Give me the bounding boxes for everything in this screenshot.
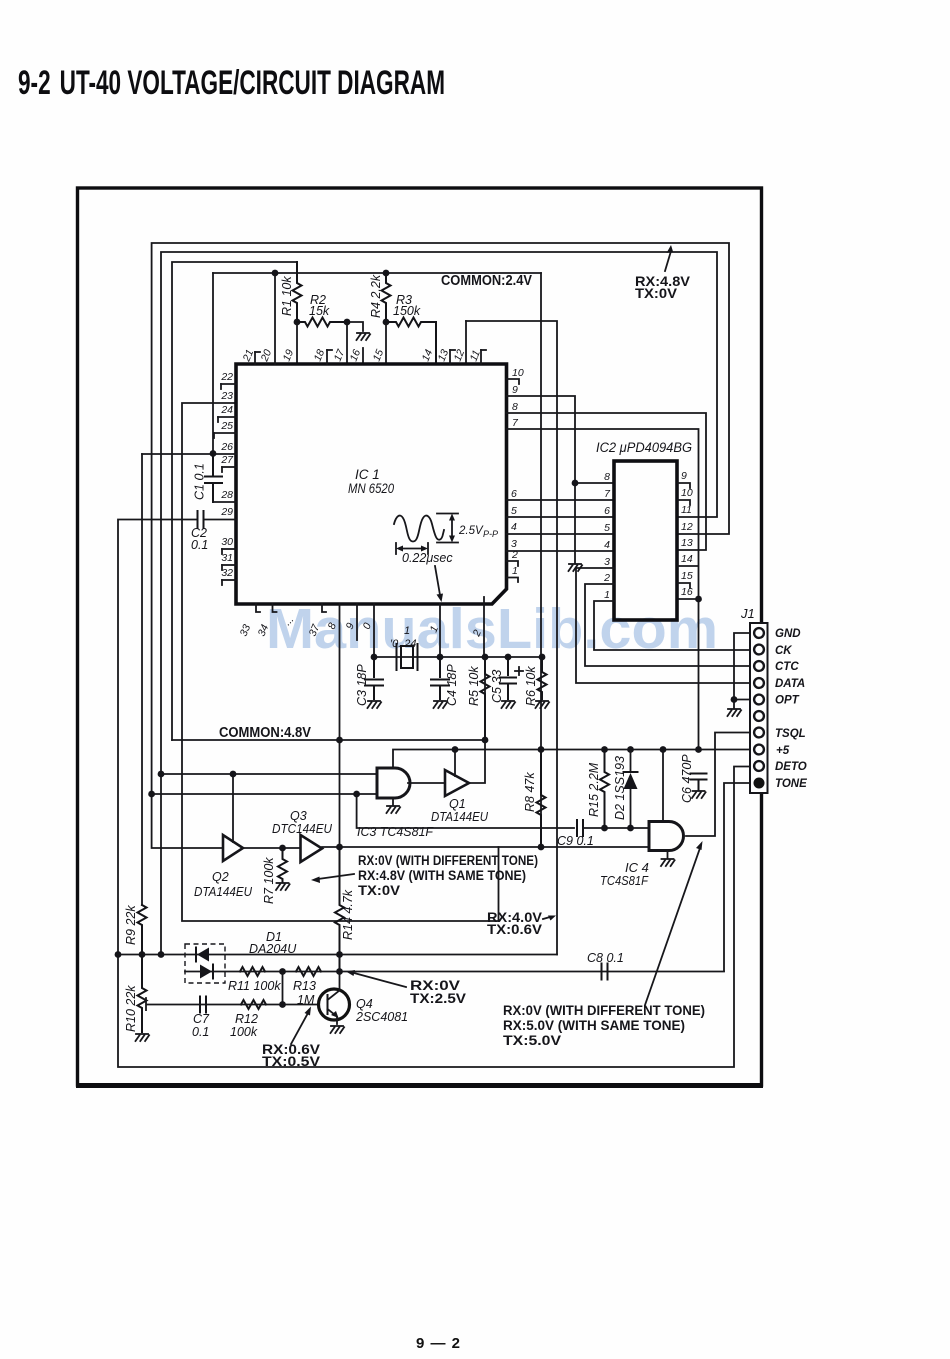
svg-text:DTC144EU: DTC144EU [272, 822, 333, 836]
ground R10 [136, 1034, 150, 1041]
svg-text:0.22μsec: 0.22μsec [402, 551, 453, 565]
svg-text:22: 22 [220, 371, 233, 383]
svg-text:2SC4081: 2SC4081 [355, 1010, 408, 1024]
svg-text:9: 9 [681, 470, 687, 482]
svg-text:MN 6520: MN 6520 [348, 481, 394, 496]
wire pin38 column upper [339, 604, 341, 847]
wire Q2 top entry [232, 774, 234, 843]
svg-text:10: 10 [512, 367, 524, 379]
ground R6 [536, 701, 550, 708]
node xtal right [437, 654, 444, 661]
svg-text:26: 26 [220, 441, 233, 453]
svg-text:RX:5.0V (WITH SAME TONE): RX:5.0V (WITH SAME TONE) [503, 1018, 685, 1033]
svg-text:R13: R13 [293, 979, 316, 993]
IC2 pin15 stub [678, 583, 690, 588]
svg-text:9 — 2: 9 — 2 [416, 1335, 461, 1352]
pin 18 stub [326, 350, 328, 364]
J1 TONE pin (filled) [754, 778, 765, 789]
svg-text:+5: +5 [776, 745, 790, 757]
svg-text:25: 25 [220, 420, 233, 432]
svg-text:29: 29 [220, 506, 233, 518]
capacitor C7 [200, 997, 206, 1013]
wire +5 bus [393, 750, 751, 769]
wire pin29/C2 [204, 519, 236, 521]
ground C3 [368, 701, 382, 708]
svg-text:14: 14 [681, 553, 693, 565]
wire D1 top row [118, 954, 557, 956]
node +5/Q1 [452, 746, 459, 753]
node L2 gate-input junction [158, 771, 165, 778]
svg-text:R14 4.7k: R14 4.7k [341, 889, 355, 940]
svg-text:P-P: P-P [483, 529, 498, 539]
ground C5 [502, 701, 516, 708]
node C5 top [505, 654, 512, 661]
resistor R8 [537, 750, 546, 847]
node R14 top [336, 844, 343, 851]
capacitor C5 electrolytic [500, 657, 516, 699]
wire IC1 pin3 - IC2 pin4 [507, 550, 615, 552]
svg-text:12: 12 [681, 521, 693, 533]
svg-text:8: 8 [512, 401, 518, 413]
node IC2 pin8 [572, 480, 579, 487]
svg-text:9: 9 [512, 384, 518, 396]
node R7 top [279, 845, 286, 852]
capacitor C3 [365, 657, 383, 699]
wire C9 to IC4 input [583, 827, 649, 829]
Q4 emitter with arrow [328, 1009, 338, 1024]
svg-text:0.1: 0.1 [192, 1025, 209, 1039]
svg-text:IC 1: IC 1 [355, 467, 380, 482]
transistor Q4 2SC4081 [319, 989, 350, 1020]
wire COMMON 2.4V top [213, 272, 541, 274]
wire loop L2 (IC2 pin11 feedback) [161, 252, 717, 955]
IC2 right pin numbers [681, 470, 693, 598]
svg-text:DATA: DATA [775, 678, 805, 690]
outer border bottom (thicker) [76, 1083, 763, 1088]
resistor R3 [386, 318, 436, 365]
capacitor C4 [431, 657, 449, 699]
wire Q1 out to 4.8V rail [469, 657, 485, 783]
node L1-gate junction [148, 791, 155, 798]
node 2.4V line end [538, 844, 545, 851]
node gate input / C9 riser [353, 791, 360, 798]
pin 11 stub [480, 350, 482, 364]
svg-text:DTA144EU: DTA144EU [431, 810, 489, 824]
wire IC4 top power [662, 750, 664, 823]
node GND/OPT [731, 696, 738, 703]
svg-text:31: 31 [221, 552, 233, 564]
arrow to x557 line [543, 916, 556, 921]
svg-text:R5 10k: R5 10k [467, 666, 481, 706]
IC2 uPD4094BG body [614, 461, 677, 620]
svg-text:R11 100k: R11 100k [228, 979, 281, 993]
svg-text:1: 1 [512, 565, 518, 577]
node +5/C6 [695, 746, 702, 753]
capacitor C2 [198, 511, 204, 528]
svg-text:150k: 150k [393, 304, 421, 318]
resistor R9 [138, 905, 147, 955]
IC1 top pin numbers [240, 347, 483, 364]
node IC2 pin16 [695, 596, 702, 603]
ground IC3 [392, 798, 394, 805]
node R6 top [539, 654, 546, 661]
J1 pin circles [754, 628, 764, 771]
svg-text:1: 1 [404, 625, 410, 637]
svg-text:4: 4 [511, 521, 517, 533]
AND gate IC3 [377, 768, 410, 798]
node +5/IC4top [660, 746, 667, 753]
svg-text:C5 33: C5 33 [490, 670, 504, 703]
plus sign C5 [515, 667, 523, 675]
ground below pin8 drop [569, 564, 583, 571]
IC1 MN6520 body [236, 364, 507, 604]
resistor R12 [241, 1000, 266, 1009]
wire pin17 [346, 322, 348, 364]
transistor Q1 DTA144EU [445, 770, 469, 796]
wire pin19 [296, 322, 298, 364]
wire OPT stub [734, 699, 751, 701]
svg-text:2.5V: 2.5V [458, 525, 484, 537]
svg-text:R8 47k: R8 47k [523, 772, 537, 812]
wire Q3 out to IC4 [322, 846, 649, 848]
capacitor C6 [691, 774, 707, 791]
svg-text:R9 22k: R9 22k [124, 905, 138, 945]
wire pin26 [142, 453, 236, 455]
arrow to Q3 base [311, 874, 354, 883]
svg-text:TSQL: TSQL [775, 728, 806, 740]
dimension 2.5Vpp [437, 514, 458, 543]
arrow to Q4 junction [346, 970, 406, 987]
svg-text:6: 6 [511, 488, 517, 500]
svg-text:J1: J1 [740, 606, 755, 621]
wire IC2 pin3 to DATA [576, 568, 751, 683]
ground C4 [434, 701, 448, 708]
node D1 wire/R9R10 [139, 951, 146, 958]
svg-text:CTC: CTC [775, 661, 799, 673]
node C7 row / R11 col [279, 1001, 286, 1008]
wire IC2 pin16 stub [678, 598, 699, 600]
svg-text:Q1: Q1 [449, 797, 466, 811]
resistor R11 [240, 967, 265, 976]
wire IC1 pin5 - IC2 pin6 [507, 516, 615, 518]
svg-text:GND: GND [775, 628, 801, 640]
wire pin40 to crystal rail [373, 604, 375, 657]
svg-text:R7 100k: R7 100k [262, 857, 276, 904]
svg-text:Q2: Q2 [212, 870, 229, 884]
wire pin2 chamfer column [483, 597, 485, 657]
wire pin16 stub [362, 348, 364, 364]
svg-text:C8 0.1: C8 0.1 [587, 951, 624, 965]
capacitor C9 [357, 794, 574, 828]
wire IC2 pin1 to CK [594, 601, 751, 650]
ground R7 [276, 883, 290, 890]
wire pin15 [385, 322, 387, 364]
wire R9 column from pin26 [141, 454, 143, 905]
svg-text:10: 10 [681, 487, 693, 499]
node rail/R5 [482, 737, 489, 744]
resistor R7 [278, 848, 287, 882]
node C1 top [210, 450, 217, 457]
node R15 bottom [601, 825, 608, 832]
wire pin26 line down [212, 273, 214, 454]
wire pin23 loop [182, 403, 499, 921]
svg-text:9-2 UT-40 VOLTAGE/CIRCUIT DIA: 9-2 UT-40 VOLTAGE/CIRCUIT DIAGRAM [18, 64, 445, 102]
node R2/pin17 [344, 319, 351, 326]
J1 pin labels [775, 628, 807, 790]
wire R11 R13 row [185, 971, 724, 973]
svg-text:TONE: TONE [775, 778, 807, 790]
wire C2 left drop / DETO bottom loop [118, 520, 751, 1068]
IC2 pin9 stub [678, 483, 690, 488]
svg-text:TX:0.6V: TX:0.6V [487, 922, 542, 937]
pin 1 stub right [507, 578, 519, 583]
svg-text:30: 30 [221, 536, 233, 548]
diode D1b (points right) [200, 965, 213, 979]
arrow to loop wire [665, 245, 673, 271]
svg-text:28: 28 [220, 489, 233, 501]
wire pin28 [213, 501, 236, 503]
pin 21 stub [254, 352, 256, 364]
svg-text:0.1: 0.1 [191, 538, 208, 552]
svg-text:R15 2.2M: R15 2.2M [587, 762, 601, 817]
resistor R14 on pin38 column [335, 847, 344, 971]
svg-text:23: 23 [220, 390, 233, 402]
wire R11-R12 vertical [282, 972, 284, 1005]
outer border [78, 188, 762, 1085]
transistor Q2 DTA144EU [223, 835, 243, 861]
left stub pins 22 24 25 27 30 31 32 [214, 384, 236, 585]
svg-text:15k: 15k [309, 304, 330, 318]
wire GND to OPT ground [734, 633, 751, 708]
svg-text:TX:2.5V: TX:2.5V [410, 991, 466, 1006]
transistor Q3 DTC144EU [301, 835, 323, 862]
diode D2 [624, 750, 638, 829]
node R11/R12 junction [279, 968, 286, 975]
svg-text:1: 1 [604, 589, 610, 601]
pin 10 stub [507, 379, 520, 384]
node D1 wire/x118 [115, 951, 122, 958]
svg-text:DETO: DETO [775, 761, 807, 773]
IC1 left pin numbers [220, 371, 234, 579]
svg-text:C3 18P: C3 18P [355, 664, 369, 706]
ground IC4 [667, 851, 669, 859]
svg-text:R6 10k: R6 10k [524, 666, 538, 706]
sine wave symbol [394, 516, 444, 542]
wire C7 base row [146, 998, 319, 1011]
svg-text:5: 5 [511, 505, 517, 517]
svg-text:R1 10k: R1 10k [280, 276, 294, 316]
arrow to base row [291, 1007, 311, 1045]
svg-text:RX:0V (WITH DIFFERENT TONE): RX:0V (WITH DIFFERENT TONE) [358, 853, 538, 868]
node R4 top [383, 270, 390, 277]
ground Q4 [331, 1026, 345, 1033]
wire loop L3 (4.8V rail to R1) [172, 262, 297, 740]
svg-text:3: 3 [604, 556, 610, 568]
svg-text:C9 0.1: C9 0.1 [557, 834, 594, 848]
node R1/R2 [294, 319, 301, 326]
wire TONE drop to C8 wire [724, 783, 751, 971]
node rail/pin38 [336, 737, 343, 744]
svg-text:RX:4.8V (WITH SAME TONE): RX:4.8V (WITH SAME TONE) [358, 868, 526, 883]
svg-text:16: 16 [681, 586, 693, 598]
capacitor C8 [602, 964, 608, 980]
wire pin1 column [439, 604, 441, 657]
pin 13 stub [449, 350, 451, 364]
wire pin12 stub [465, 321, 467, 364]
svg-text:R12: R12 [235, 1012, 258, 1026]
svg-text:C6 470P: C6 470P [680, 754, 694, 803]
wire 2.4V drop line [540, 273, 542, 847]
node Q4 collector junction [336, 968, 343, 975]
node D1 wire/L2 [158, 951, 165, 958]
IC2 pin14 stub [678, 565, 698, 567]
diode block D1 dashed box [185, 944, 225, 983]
diode D1a (points left) [196, 948, 209, 962]
ground C6 [692, 791, 706, 798]
wire IC1 pin8 to IC2 pin13 [507, 413, 707, 550]
resistor R6 [538, 657, 547, 699]
svg-text:DTA144EU: DTA144EU [194, 885, 253, 899]
resistor R13 [296, 967, 321, 976]
svg-text:R10 22k: R10 22k [124, 985, 138, 1032]
wire pin12 loop to x557 [466, 321, 557, 955]
svg-text:C4 18P: C4 18P [445, 664, 459, 706]
wire Q2 out [243, 847, 301, 849]
node +5/D2 [627, 746, 634, 753]
pin 20 wire [274, 273, 276, 364]
svg-text:5: 5 [604, 522, 610, 534]
svg-text:8: 8 [604, 471, 610, 483]
svg-text:RX:0V (WITH DIFFERENT TONE): RX:0V (WITH DIFFERENT TONE) [503, 1003, 705, 1018]
resistor R15 [600, 750, 609, 829]
Q4 collector [328, 972, 340, 1001]
wire IC1 pin7 to IC2 pin16 to +5 bus [507, 429, 699, 750]
svg-text:D2 1SS193: D2 1SS193 [613, 756, 627, 820]
svg-text:TX:0V: TX:0V [635, 285, 678, 301]
ground pin16 [357, 333, 371, 340]
wire TSQL to IC4 output [686, 733, 751, 837]
resistor R4 [382, 273, 391, 322]
crystal X1 [397, 644, 418, 670]
svg-text:6: 6 [604, 505, 610, 517]
svg-text:C7: C7 [193, 1012, 210, 1026]
svg-text:CK: CK [775, 645, 792, 657]
svg-text:Q3: Q3 [290, 809, 307, 823]
svg-text:32: 32 [221, 567, 233, 579]
node Q2 top [230, 771, 237, 778]
wire Q1 base from +5 [454, 750, 456, 777]
wire L1 lower segment to Q2 [152, 794, 223, 848]
resistor R5 [481, 657, 490, 740]
wire IC1 pin4 - IC2 pin5 [507, 533, 615, 535]
wire IC3 out to Q1 [408, 782, 445, 784]
svg-text:Q4: Q4 [356, 997, 373, 1011]
capacitor C1 [205, 454, 222, 502]
AND gate IC4 [649, 822, 684, 851]
svg-text:27: 27 [220, 454, 234, 466]
wire IC1 pin6 - IC2 pin7 [507, 499, 615, 501]
node pin20 top [272, 270, 279, 277]
bottom stubs [256, 604, 357, 640]
svg-text:R4 2.2k: R4 2.2k [369, 274, 383, 318]
svg-text:TX:0V: TX:0V [358, 883, 400, 898]
wire IC2 pin2 to CTC [585, 584, 751, 666]
svg-text:COMMON:2.4V: COMMON:2.4V [441, 273, 532, 289]
arrow from text to IC4 output [645, 841, 703, 1005]
svg-text:C1 0.1: C1 0.1 [193, 463, 207, 500]
IC2 left pin numbers [603, 471, 611, 601]
dimension 0.22usec [396, 543, 428, 554]
connector J1 body [750, 623, 768, 793]
arrow to pin 1 [435, 566, 443, 602]
node R5 top [482, 654, 489, 661]
node xtal left [371, 654, 378, 661]
wire IC2 pin8 [575, 482, 614, 484]
svg-text:TX:0.5V: TX:0.5V [262, 1054, 320, 1069]
svg-text:4: 4 [604, 539, 610, 551]
node +5/541 [538, 746, 545, 753]
svg-text:COMMON:4.8V: COMMON:4.8V [219, 725, 311, 741]
wire loop L1 (IC2 pin12 feedback) [152, 243, 729, 794]
svg-text:TC4S81F: TC4S81F [600, 874, 649, 888]
svg-text:2: 2 [603, 572, 610, 584]
IC1 right pin numbers [511, 367, 524, 577]
wire IC1 pin9 to IC2 pin8 and ground [507, 396, 576, 563]
svg-text:100k: 100k [230, 1025, 258, 1039]
IC1 bottom pin numbers [238, 621, 484, 639]
wire COMMON 4.8V rail [172, 739, 485, 741]
resistor R2 [297, 318, 347, 327]
svg-text:OPT: OPT [775, 695, 800, 707]
wire crystal rail [374, 656, 542, 658]
node +5/R15 [601, 746, 608, 753]
wire gate IC3 bottom input [152, 793, 377, 795]
svg-text:TX:5.0V: TX:5.0V [503, 1033, 561, 1048]
svg-text:′0..24.: ′0..24. [390, 638, 420, 650]
svg-text:24: 24 [220, 404, 233, 416]
wire R2 to ground [347, 322, 363, 331]
svg-text:IC 4: IC 4 [625, 860, 649, 875]
IC2 pin10 stub [678, 500, 690, 505]
wire gate IC3 top input [161, 773, 377, 775]
svg-text:13: 13 [681, 537, 693, 549]
pin 2 stub right [507, 561, 519, 566]
resistor R10 [138, 955, 147, 1033]
svg-text:IC2 μPD4094BG: IC2 μPD4094BG [596, 440, 692, 455]
node R4/R3 [383, 319, 390, 326]
node D1 wire/pin38 col [336, 951, 343, 958]
svg-text:15: 15 [681, 570, 693, 582]
node D2 bottom [627, 825, 634, 832]
ground GND/OPT [728, 709, 742, 716]
resistor R1 [293, 262, 302, 322]
